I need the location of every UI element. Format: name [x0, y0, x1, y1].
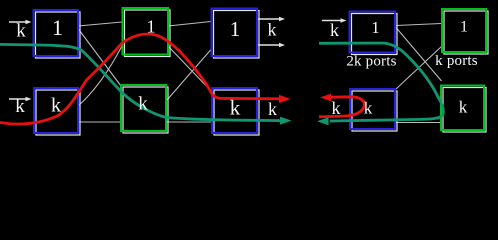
svg-text:k: k — [15, 96, 25, 117]
svg-text:1: 1 — [52, 15, 63, 40]
svg-text:1: 1 — [147, 17, 156, 37]
svg-text:k: k — [51, 95, 61, 117]
svg-text:1: 1 — [371, 18, 380, 37]
svg-text:k: k — [268, 99, 277, 119]
svg-text:k: k — [459, 98, 468, 117]
svg-text:k ports: k ports — [435, 53, 478, 69]
svg-text:1: 1 — [230, 17, 241, 41]
svg-text:2k ports: 2k ports — [346, 54, 396, 70]
svg-text:k: k — [230, 96, 241, 120]
svg-text:k: k — [268, 20, 277, 40]
svg-text:k: k — [138, 94, 148, 115]
svg-text:k: k — [330, 20, 339, 40]
svg-text:k: k — [364, 99, 373, 118]
svg-text:k: k — [16, 21, 26, 42]
svg-text:1: 1 — [460, 19, 468, 36]
svg-text:k: k — [332, 98, 341, 118]
